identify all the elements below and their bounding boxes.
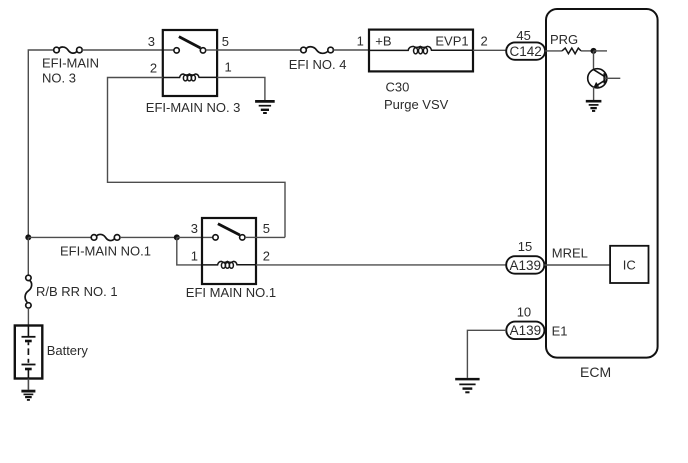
svg-text:EFI-MAIN NO.1: EFI-MAIN NO.1 <box>60 243 151 258</box>
svg-text:C142: C142 <box>509 44 541 59</box>
wire MREL to IC <box>544 264 610 266</box>
wire relay1 pin1 to ground <box>217 77 265 100</box>
wire fuse to battery <box>27 308 29 325</box>
fuse R/B RR NO. 1 <box>25 275 32 308</box>
relay1 contact right <box>200 48 205 53</box>
svg-text:10: 10 <box>517 305 531 320</box>
svg-text:ECM: ECM <box>580 364 611 380</box>
wire VSV pin2 to connector C142 <box>473 49 507 51</box>
svg-text:MREL: MREL <box>552 246 588 261</box>
svg-text:EFI MAIN NO.1: EFI MAIN NO.1 <box>186 285 276 300</box>
svg-text:+B: +B <box>375 33 391 48</box>
svg-text:EFI NO. 4: EFI NO. 4 <box>289 57 347 72</box>
svg-text:3: 3 <box>191 221 198 236</box>
fuse EFI NO. 4 <box>301 47 334 54</box>
svg-text:NO. 3: NO. 3 <box>42 70 76 85</box>
svg-text:EFI-MAIN: EFI-MAIN <box>42 55 99 70</box>
svg-text:A139: A139 <box>510 323 542 338</box>
resistor (ECM driver pull) <box>562 48 581 54</box>
fuse EFI-MAIN NO.1 <box>91 234 120 240</box>
wire E1 to ground <box>467 330 506 378</box>
relay1 switch arm <box>179 37 201 48</box>
svg-text:2: 2 <box>263 248 270 263</box>
svg-text:IC: IC <box>623 258 636 273</box>
wire fuse1 to relay1 pin3 <box>82 49 174 51</box>
relay2 contact left <box>213 235 218 240</box>
relay2 coil <box>202 261 256 268</box>
svg-text:1: 1 <box>191 249 198 264</box>
svg-text:E1: E1 <box>552 324 568 339</box>
wire fuse3 to junction A <box>120 236 177 238</box>
svg-text:45: 45 <box>516 28 530 43</box>
connector A139 pin 15 oval <box>506 256 544 274</box>
svg-text:A139: A139 <box>510 258 542 273</box>
wire relay1 pin5 to fuse EFI NO.4 <box>217 49 301 51</box>
wire battery feed down through R/B RR fuse <box>27 237 29 275</box>
ground (transistor emitter) <box>586 101 602 111</box>
ground (battery) <box>21 391 35 400</box>
relay EFI MAIN NO.1 box <box>202 218 256 284</box>
VSV coil <box>369 46 473 54</box>
IC box <box>610 246 648 283</box>
junction dot relay2 branch <box>174 234 180 240</box>
svg-text:5: 5 <box>222 34 229 49</box>
node (PRG junction dot) <box>591 48 597 54</box>
wire junction down to relay2 coil pin1 <box>177 237 202 265</box>
ground (relay1 coil) <box>255 101 275 113</box>
relay2 switch arm <box>218 224 240 235</box>
wire relay1 pin2 to relay2 pin5 (loop) <box>108 78 286 238</box>
wire to fuse EFI-MAIN NO.1 <box>28 236 91 238</box>
svg-text:5: 5 <box>263 221 270 236</box>
wire fuse2 to VSV <box>333 49 369 51</box>
wire resistor to node <box>581 50 594 52</box>
connector C142 oval <box>506 42 545 59</box>
wire battery to ground <box>27 379 29 390</box>
fuse EFI-MAIN NO. 3 <box>54 47 82 53</box>
svg-text:3: 3 <box>148 34 155 49</box>
svg-text:2: 2 <box>150 60 157 75</box>
relay2 contact right <box>240 235 245 240</box>
svg-text:2: 2 <box>481 34 488 49</box>
relay1 coil <box>163 74 217 81</box>
wire battery feed top: corner to fuse EFI-MAIN NO.3 <box>28 50 53 237</box>
junction dot battery feed / EFI-MAIN NO.1 <box>25 234 31 240</box>
wire relay1 switch right contact to box edge <box>206 49 217 51</box>
ground (E1) <box>455 379 479 392</box>
connector A139 pin 10 oval (E1) <box>506 322 544 340</box>
wire node to transistor collector <box>593 51 595 70</box>
svg-text:EFI-MAIN NO. 3: EFI-MAIN NO. 3 <box>146 100 241 115</box>
battery <box>15 326 43 379</box>
relay1 contact left <box>174 48 179 53</box>
transistor Q (PRG driver) <box>588 69 621 100</box>
svg-text:15: 15 <box>518 239 532 254</box>
svg-text:1: 1 <box>357 33 364 48</box>
wire C142 to resistor <box>545 50 562 52</box>
ECM box <box>546 9 658 358</box>
svg-text:1: 1 <box>225 59 232 74</box>
wire node stub right <box>594 50 608 52</box>
svg-text:PRG: PRG <box>550 32 578 47</box>
solenoid C30 Purge VSV box <box>369 30 473 72</box>
wire relay2 pin2 to A139 (15) <box>256 264 507 266</box>
wire junction to relay2 pin3 <box>177 236 213 238</box>
svg-text:R/B RR NO. 1: R/B RR NO. 1 <box>36 284 118 299</box>
svg-text:EVP1: EVP1 <box>435 33 468 48</box>
svg-text:Purge VSV: Purge VSV <box>384 97 449 112</box>
wire relay2 right contact to box edge <box>245 236 256 238</box>
svg-text:Battery: Battery <box>47 343 89 358</box>
relay EFI-MAIN NO. 3 box <box>163 30 217 96</box>
svg-text:C30: C30 <box>386 79 410 94</box>
wire relay2 pin5 right then up <box>256 236 285 238</box>
